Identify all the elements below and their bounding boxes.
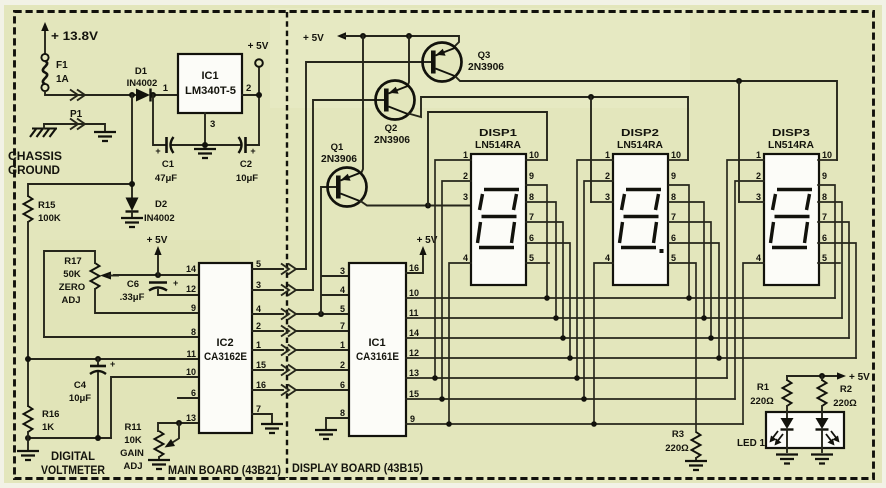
- svg-text:14: 14: [409, 328, 419, 338]
- svg-text:6: 6: [529, 233, 534, 243]
- svg-text:+: +: [173, 278, 178, 288]
- op-amp IC1 CA3161E box: [349, 263, 406, 436]
- svg-text:15: 15: [256, 360, 266, 370]
- wire pin 11 row: [28, 358, 199, 360]
- svg-text:2: 2: [340, 360, 345, 370]
- wire pin 6 stub: [178, 397, 199, 399]
- svg-text:16: 16: [256, 380, 266, 390]
- svg-text:10K: 10K: [124, 435, 142, 446]
- wire R17 bottom to pin 9 row: [95, 289, 199, 313]
- wire C6 bottom to pin 12 row: [158, 290, 199, 295]
- svg-text:7: 7: [340, 321, 345, 331]
- svg-text:C4: C4: [74, 380, 87, 391]
- svg-text:ZERO: ZERO: [59, 282, 85, 293]
- resistor R2 220ohm: [821, 376, 823, 380]
- svg-text:6: 6: [822, 233, 827, 243]
- chassis ground symbol: [30, 129, 57, 138]
- wire DISP2 pin7 drop: [669, 222, 711, 338]
- svg-text:1A: 1A: [56, 74, 69, 85]
- svg-text:D2: D2: [155, 199, 167, 210]
- svg-text:GAIN: GAIN: [120, 448, 144, 459]
- svg-text:10μF: 10μF: [69, 393, 91, 404]
- wire DISP2 pin6 drop: [669, 243, 719, 358]
- segment bus b (IC1 pin11): [406, 317, 842, 319]
- svg-text:2N3906: 2N3906: [374, 135, 410, 146]
- svg-text:DISP2: DISP2: [621, 127, 659, 139]
- transistor Q2 2N3906: [374, 81, 415, 147]
- wire DISP1 pin8 drop: [526, 202, 556, 318]
- transistor Q3 2N3906: [423, 43, 505, 82]
- wire DISP3 pin4 drop: [743, 263, 764, 424]
- wire R15 to pin11 node: [27, 222, 29, 406]
- IC1 right pin numbers: [409, 263, 419, 424]
- svg-text:4: 4: [256, 304, 261, 314]
- svg-text:R16: R16: [42, 409, 59, 420]
- svg-text:+ 5V: + 5V: [303, 33, 324, 44]
- node +13.8V input arrow: [41, 22, 98, 54]
- ground (R16): [17, 451, 39, 460]
- connector P1 pin 2 row: [44, 124, 105, 130]
- potentiometer R11 10K GAIN ADJ: [120, 422, 179, 472]
- svg-text:7: 7: [256, 404, 261, 414]
- svg-text:7: 7: [529, 212, 534, 222]
- svg-text:5: 5: [671, 253, 676, 263]
- svg-text:R17: R17: [64, 256, 81, 267]
- dashed board divider: [286, 12, 288, 478]
- wire DISP3 pin6 drop: [818, 243, 856, 358]
- connector row IC2 pin1 to IC1 pin1: [252, 349, 349, 351]
- resistor R16 1K: [24, 406, 33, 432]
- svg-text:DIGITAL: DIGITAL: [51, 449, 95, 463]
- transistor Q1 2N3906: [321, 142, 367, 207]
- svg-text:GROUND: GROUND: [8, 163, 60, 177]
- svg-text:4: 4: [756, 253, 761, 263]
- svg-text:+ 5V: + 5V: [248, 41, 269, 52]
- wire DISP2 pin1 drop: [577, 160, 613, 378]
- svg-text:9: 9: [410, 414, 415, 424]
- svg-text:F1: F1: [56, 60, 68, 71]
- svg-text:+: +: [155, 146, 160, 156]
- wire IC1 pin8 to ground: [326, 418, 349, 428]
- svg-text:10: 10: [529, 150, 539, 160]
- diode D1 IN4002: [127, 66, 158, 102]
- wire DISP1 pin7 drop: [526, 222, 563, 338]
- svg-text:5: 5: [529, 253, 534, 263]
- svg-text:10: 10: [409, 288, 419, 298]
- wire Q3 collector to DISP3 pin3 and pin10: [456, 77, 838, 161]
- wire pin 8 row: [44, 336, 199, 338]
- wire IC1 pin2 to +5V terminal: [242, 67, 259, 145]
- svg-text:+: +: [110, 359, 115, 369]
- svg-text:2: 2: [463, 171, 468, 181]
- wire DISP3 pin5 stub: [818, 262, 840, 264]
- segment bus a (IC1 pin10): [406, 297, 835, 299]
- svg-text:CA3161E: CA3161E: [356, 351, 399, 363]
- svg-text:1: 1: [163, 83, 169, 94]
- wire DISP2 pin4 drop: [594, 263, 613, 424]
- svg-text:1: 1: [340, 340, 345, 350]
- wire DISP3 pin3 stub: [739, 201, 764, 203]
- wire IC1 pin3 stub: [322, 275, 349, 277]
- svg-text:8: 8: [191, 327, 196, 337]
- terminal +5V output: [255, 59, 263, 67]
- capacitor C2 10uF: [236, 137, 258, 184]
- svg-text:R2: R2: [840, 384, 852, 395]
- connector row IC2 pin4 to IC1 pin5: [252, 313, 349, 315]
- svg-text:C1: C1: [162, 159, 175, 170]
- svg-text:C2: C2: [240, 159, 252, 170]
- svg-text:14: 14: [186, 264, 196, 274]
- svg-text:12: 12: [409, 348, 419, 358]
- svg-text:1: 1: [463, 150, 468, 160]
- svg-text:R1: R1: [757, 382, 770, 393]
- svg-text:7: 7: [822, 212, 827, 222]
- svg-text:+: +: [250, 146, 255, 156]
- 7-segment display DISP3 LN514RA: [756, 127, 832, 285]
- wire DISP1 pin5 stub: [526, 262, 549, 264]
- IC2 left pin numbers: [186, 264, 196, 423]
- wire pin 10 row: [111, 377, 199, 438]
- ground (LED1 right): [811, 455, 833, 464]
- wire DISP1 pin1 drop: [435, 160, 471, 378]
- ground (IC1 pin8): [315, 430, 337, 439]
- svg-text:2N3906: 2N3906: [321, 154, 357, 165]
- node +5V arrow at C6: [147, 235, 168, 275]
- wire DISP3 pin9 drop: [818, 185, 835, 298]
- svg-text:9: 9: [822, 171, 827, 181]
- wire C1-C2 row: [153, 95, 259, 145]
- svg-text:15: 15: [409, 389, 419, 399]
- wire DISP1 pin9 drop: [526, 185, 547, 298]
- wire pin 13 row: [158, 423, 199, 431]
- svg-text:220Ω: 220Ω: [833, 398, 857, 409]
- svg-text:9: 9: [191, 303, 196, 313]
- ground (R11): [148, 460, 170, 469]
- svg-text:2: 2: [756, 171, 761, 181]
- wire Q1 collector to DISP1 pin3: [361, 201, 472, 206]
- op-amp IC2 CA3162E box: [199, 263, 252, 433]
- svg-text:+ 13.8V: + 13.8V: [51, 29, 98, 43]
- wire DISP3 pin2 drop: [735, 181, 764, 399]
- svg-text:3: 3: [340, 266, 345, 276]
- svg-text:13: 13: [409, 368, 419, 378]
- wire Q2 base riser: [313, 100, 387, 290]
- svg-text:100K: 100K: [38, 213, 61, 224]
- connector row IC2 pin5 to Q3 base: [252, 268, 306, 270]
- svg-text:1: 1: [256, 340, 261, 350]
- svg-text:50K: 50K: [63, 269, 81, 280]
- segment bus c (IC1 pin14): [406, 337, 849, 339]
- svg-text:R11: R11: [125, 422, 143, 433]
- svg-text:DISP3: DISP3: [772, 127, 810, 139]
- wire DISP2 pin3 stub: [591, 201, 613, 203]
- svg-text:8: 8: [529, 192, 534, 202]
- segment bus d (IC1 pin12): [406, 357, 856, 359]
- svg-text:47μF: 47μF: [155, 173, 177, 184]
- svg-text:IC1: IC1: [201, 70, 218, 82]
- svg-text:CHASSIS: CHASSIS: [8, 149, 62, 163]
- svg-text:3: 3: [256, 280, 261, 290]
- LED 1 left diode: [770, 406, 794, 452]
- resistor R15 100K: [24, 196, 33, 222]
- wire DISP2 pin10 stub: [669, 159, 688, 161]
- svg-text:6: 6: [340, 380, 345, 390]
- wire DISP3 pin7 drop: [818, 222, 849, 338]
- junction dots on main rail: [129, 92, 135, 98]
- connector row IC2 pin3 to Q2 base: [252, 289, 313, 291]
- svg-text:220Ω: 220Ω: [665, 443, 689, 454]
- svg-text:8: 8: [822, 192, 827, 202]
- wire Q2 emitter to +5V rail: [408, 36, 410, 87]
- svg-text:R15: R15: [38, 200, 56, 211]
- svg-text:6: 6: [671, 233, 676, 243]
- wire Q2 collector to DISP2 pin3 and pin10: [409, 97, 689, 160]
- fuse F1 1A: [41, 54, 68, 91]
- svg-text:+ 5V: + 5V: [849, 372, 870, 383]
- svg-text:3: 3: [463, 192, 468, 202]
- svg-text:2: 2: [246, 83, 251, 94]
- wire Q1 base riser: [321, 187, 340, 314]
- node +5V rail (display board): [303, 32, 459, 47]
- wire DISP2 pin2 drop: [584, 181, 613, 399]
- svg-text:5: 5: [340, 304, 345, 314]
- wire DISP3 pin1 drop: [727, 160, 764, 378]
- wire IC1 pin4 stub: [322, 294, 349, 296]
- segment bus f (IC1 pin15): [406, 398, 735, 400]
- svg-text:VOLTMETER: VOLTMETER: [41, 463, 105, 477]
- wire DISP1 pin2 drop: [442, 181, 471, 399]
- svg-text:10: 10: [671, 150, 681, 160]
- svg-text:Q1: Q1: [331, 142, 344, 153]
- svg-text:LN514RA: LN514RA: [768, 139, 814, 151]
- svg-text:2: 2: [256, 321, 261, 331]
- node +5V rail (LED anodes): [787, 372, 870, 383]
- svg-text:4: 4: [340, 285, 345, 295]
- svg-text:P1: P1: [70, 109, 83, 120]
- svg-text:220Ω: 220Ω: [750, 396, 774, 407]
- svg-text:12: 12: [186, 284, 196, 294]
- svg-text:CA3162E: CA3162E: [204, 351, 247, 363]
- svg-text:IN4002: IN4002: [127, 78, 158, 89]
- svg-text:LN514RA: LN514RA: [617, 139, 663, 151]
- LED 1 box: [766, 412, 844, 448]
- wire DISP2 pin8 drop: [669, 202, 704, 318]
- svg-text:16: 16: [409, 263, 419, 273]
- svg-text:4: 4: [605, 253, 610, 263]
- wire Q1 collector branch to DISP1 pin10: [428, 112, 547, 206]
- capacitor C6 .33uF: [120, 278, 179, 303]
- connector P1 pin (chevrons on main rail): [70, 90, 85, 101]
- connector row IC2 pin15 to IC1 pin2: [252, 369, 349, 371]
- ground (LED1 left): [776, 455, 798, 464]
- svg-text:1: 1: [605, 150, 610, 160]
- svg-text:IC2: IC2: [216, 337, 233, 349]
- svg-text:.33μF: .33μF: [120, 292, 145, 303]
- svg-text:ADJ: ADJ: [123, 461, 142, 472]
- wire DISP3 pin10 stub: [818, 159, 837, 161]
- wire DISP2 pin9 drop: [669, 185, 689, 298]
- svg-text:R3: R3: [672, 429, 684, 440]
- ground (IC1 pin3): [194, 149, 216, 158]
- LED 1 right diode: [816, 406, 840, 452]
- svg-text:IC1: IC1: [368, 337, 385, 349]
- svg-text:Q3: Q3: [478, 50, 491, 61]
- svg-text:4: 4: [463, 253, 468, 263]
- wire DISP2 pin5 (decimal point) to R3: [669, 263, 696, 432]
- IC2 right pin numbers: [256, 259, 266, 414]
- IC1 LM340T-5 voltage regulator: [163, 54, 252, 130]
- svg-text:2N3906: 2N3906: [468, 62, 504, 73]
- svg-text:DISPLAY BOARD (43B15): DISPLAY BOARD (43B15): [292, 463, 423, 475]
- ground (D2): [121, 218, 143, 227]
- svg-text:8: 8: [340, 408, 345, 418]
- connector row IC2 pin16 to IC1 pin6: [252, 389, 349, 391]
- svg-text:LED 1: LED 1: [737, 437, 765, 449]
- svg-text:10: 10: [186, 367, 196, 377]
- svg-text:3: 3: [210, 119, 215, 130]
- diode D2 IN4002: [126, 198, 175, 225]
- wire Q3 base riser: [306, 62, 434, 269]
- svg-text:6: 6: [191, 388, 196, 398]
- svg-text:7: 7: [671, 212, 676, 222]
- svg-text:9: 9: [529, 171, 534, 181]
- resistor R3 220ohm: [692, 432, 701, 458]
- wire: R15 top horizontal: [28, 184, 132, 196]
- wire Q2 collector drop to DISP2 pin3: [590, 97, 592, 202]
- ground (IC2 pin7): [261, 424, 283, 433]
- wire DISP1 pin10 stub: [526, 159, 547, 161]
- svg-text:9: 9: [671, 171, 676, 181]
- node +5V arrow at IC1 pin16: [406, 235, 438, 273]
- svg-text:LM340T-5: LM340T-5: [185, 85, 236, 97]
- segment bus e (IC1 pin13): [406, 377, 727, 379]
- svg-text:8: 8: [671, 192, 676, 202]
- svg-text:13: 13: [186, 413, 196, 423]
- wire Q3 collector drop to DISP3 pin3: [738, 81, 740, 202]
- svg-text:ADJ: ADJ: [61, 295, 80, 306]
- svg-text:1: 1: [756, 150, 761, 160]
- 7-segment display DISP2 LN514RA: [605, 127, 681, 285]
- svg-text:11: 11: [186, 349, 196, 359]
- wire bottom row R16/C4: [28, 437, 111, 439]
- svg-text:LN514RA: LN514RA: [475, 139, 521, 151]
- svg-text:IN4002: IN4002: [144, 213, 175, 224]
- svg-text:10μF: 10μF: [236, 173, 258, 184]
- resistor R1 220ohm: [786, 376, 788, 380]
- wire DISP1 pin4 drop: [449, 263, 471, 424]
- ground (R3): [685, 461, 707, 470]
- svg-text:MAIN BOARD (43B21): MAIN BOARD (43B21): [168, 465, 281, 477]
- svg-text:3: 3: [605, 192, 610, 202]
- svg-text:+ 5V: + 5V: [147, 235, 168, 246]
- svg-text:2: 2: [605, 171, 610, 181]
- wire D1 to IC1 pin1: [151, 94, 178, 96]
- wire IC1 pin3 down: [204, 113, 206, 145]
- capacitor C4 10uF: [69, 359, 115, 438]
- wire DISP3 pin8 drop: [818, 202, 842, 318]
- wire R17 top loop to pin 8 row: [44, 251, 95, 337]
- segment bus g (IC1 pin9): [406, 423, 743, 425]
- svg-text:3: 3: [756, 192, 761, 202]
- svg-text:Q2: Q2: [385, 123, 398, 134]
- ground (P1 right): [94, 132, 116, 141]
- wire: vertical D1 anode node down to D2: [131, 95, 133, 197]
- svg-text:10: 10: [822, 150, 832, 160]
- svg-text:5: 5: [822, 253, 827, 263]
- svg-text:D1: D1: [135, 66, 148, 77]
- svg-text:1K: 1K: [42, 422, 54, 433]
- IC1 left pin numbers: [340, 266, 345, 418]
- wire pin 14 row (wiper to IC2): [114, 274, 199, 276]
- wire IC2 pin7 to ground: [252, 414, 272, 422]
- wire DISP1 pin6 drop: [526, 243, 570, 358]
- capacitor C1 47uF: [155, 137, 177, 184]
- wire fuse to D1 (main +13.8V rail): [45, 91, 135, 95]
- svg-text:11: 11: [409, 308, 419, 318]
- svg-text:5: 5: [256, 259, 261, 269]
- wire Q1 emitter to +5V rail: [361, 36, 363, 174]
- 7-segment display DISP1 LN514RA: [463, 127, 539, 285]
- svg-text:C6: C6: [127, 279, 139, 290]
- potentiometer R17 50K ZERO ADJ: [59, 256, 118, 306]
- svg-text:DISP1: DISP1: [479, 127, 517, 139]
- connector row IC2 pin2 to IC1 pin7: [252, 330, 349, 332]
